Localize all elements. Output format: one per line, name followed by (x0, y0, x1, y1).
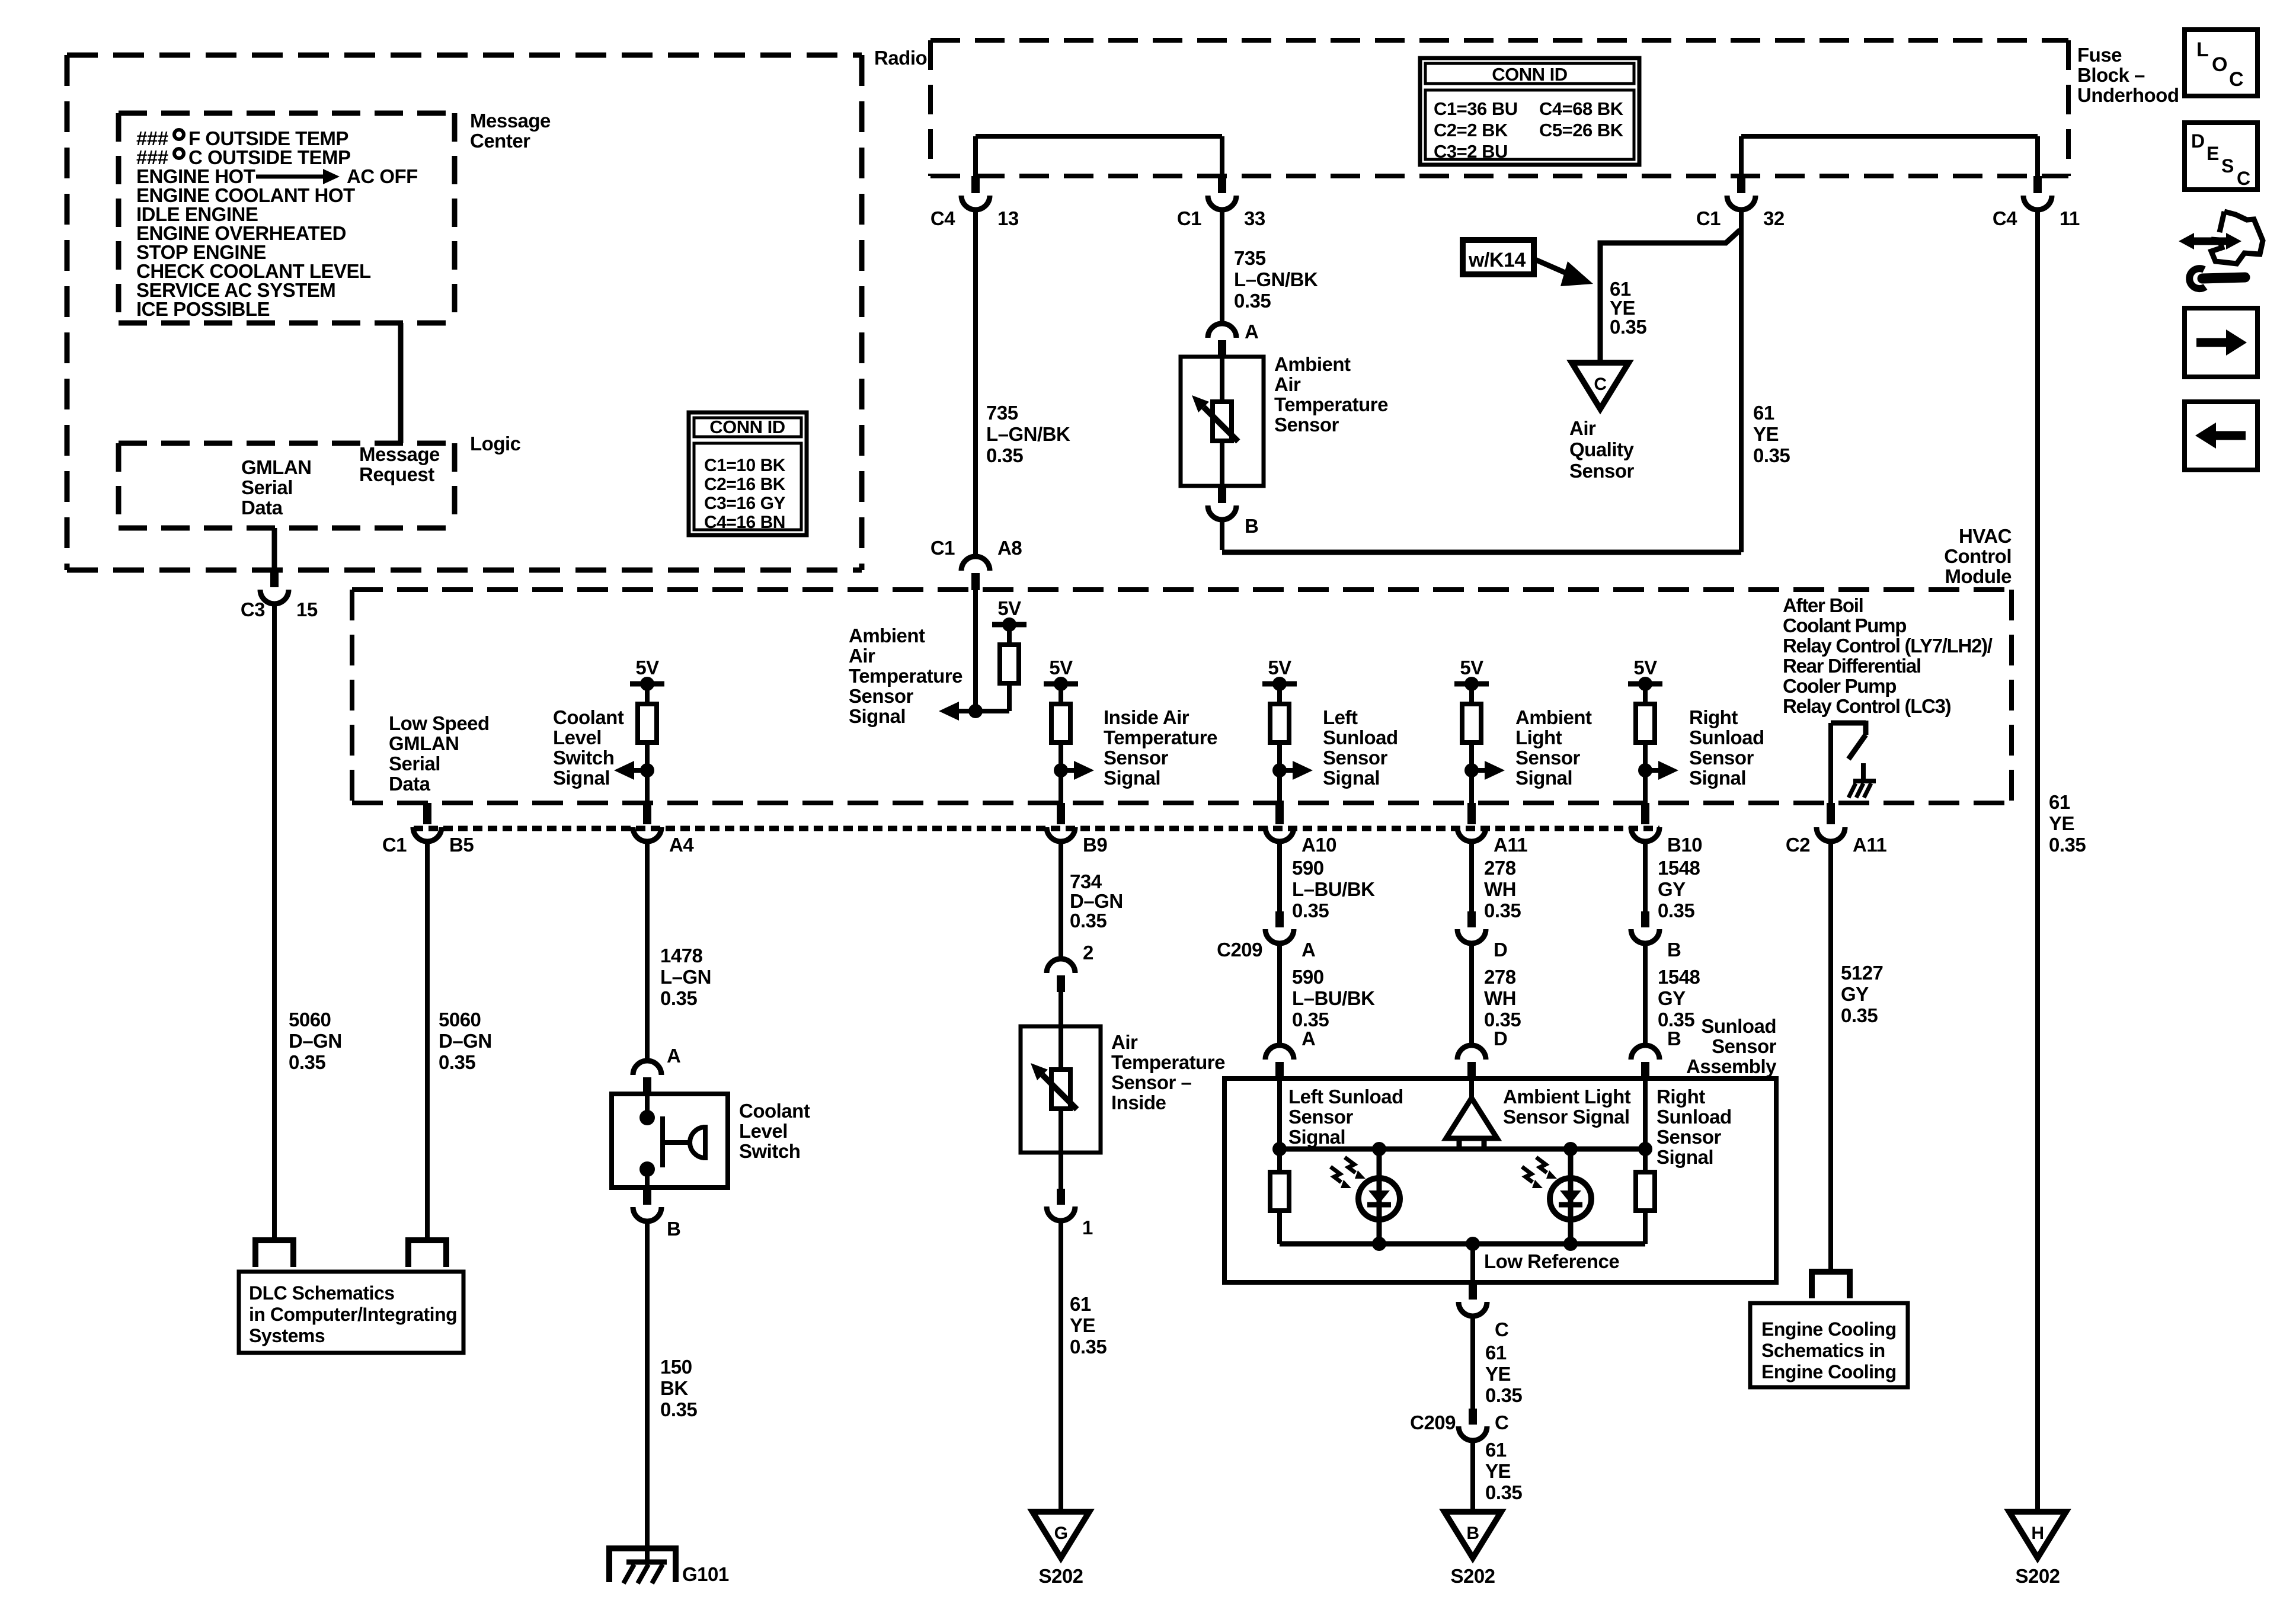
svg-text:Temperature: Temperature (1111, 1051, 1225, 1073)
svg-text:Level: Level (739, 1120, 788, 1142)
svg-text:L–GN/BK: L–GN/BK (1234, 268, 1318, 290)
inline connector C209 pin B (1641, 911, 1649, 927)
svg-text:C1: C1 (382, 834, 407, 856)
internal low reference rail (1280, 1241, 1645, 1247)
svg-text:A11: A11 (1494, 834, 1527, 856)
svg-text:278: 278 (1484, 857, 1516, 879)
splice triangle C - air quality sensor (1572, 363, 1629, 409)
svg-text:Control: Control (1944, 545, 2012, 567)
svg-text:Logic: Logic (470, 433, 521, 455)
svg-text:Right: Right (1689, 706, 1738, 728)
svg-text:GMLAN: GMLAN (241, 456, 311, 478)
connector C1 pin 32 (fuse block) (1737, 176, 1745, 193)
svg-text:5060: 5060 (439, 1009, 481, 1030)
svg-text:Signal: Signal (1657, 1146, 1713, 1168)
svg-text:C1: C1 (1177, 207, 1201, 229)
svg-text:GY: GY (1658, 987, 1686, 1009)
svg-text:C209: C209 (1410, 1412, 1456, 1433)
icon box forward arrow (2185, 308, 2257, 377)
svg-text:A: A (1302, 939, 1315, 961)
svg-text:YE: YE (2049, 812, 2074, 834)
wire 1478 L-GN (A4 to coolant level switch) (645, 844, 650, 1061)
svg-text:C3=2 BU: C3=2 BU (1434, 141, 1508, 162)
terminal bracket to engine cooling schematics (1812, 1272, 1850, 1298)
svg-text:Left: Left (1323, 706, 1358, 728)
wire sensor B to fuse block C1-32 (1220, 519, 1224, 550)
connector pin 2 (air temperature sensor - inside) (1047, 959, 1075, 973)
svg-text:Inside: Inside (1111, 1092, 1166, 1113)
wire 61 YE (pin C to C209 C) (1470, 1316, 1475, 1409)
amplifier (ambient light sensor) (1469, 1078, 1474, 1098)
svg-text:L–BU/BK: L–BU/BK (1292, 987, 1375, 1009)
wire 278 WH (C209 to sunload assembly pin D) (1469, 946, 1474, 1044)
svg-text:Low Speed: Low Speed (389, 712, 490, 734)
ground G101 (609, 1548, 676, 1582)
svg-text:Engine Cooling: Engine Cooling (1761, 1361, 1897, 1382)
svg-text:Request: Request (359, 463, 434, 485)
wire 278 WH (A11 to C209 D) (1469, 844, 1474, 911)
svg-text:G: G (1054, 1524, 1068, 1543)
svg-text:Sensor: Sensor (1274, 414, 1339, 436)
svg-text:Sunload: Sunload (1689, 727, 1764, 748)
svg-text:C209: C209 (1217, 939, 1262, 961)
splice triangle G - S202 (1032, 1512, 1089, 1558)
junction and arrow inside air temperature sensor signal (1054, 763, 1068, 777)
svg-text:YE: YE (1485, 1460, 1511, 1482)
svg-text:11: 11 (2060, 207, 2080, 229)
svg-text:Air: Air (1274, 373, 1301, 395)
w/K14 callout box (1463, 240, 1534, 274)
connector C3 pin 15 (radio) (270, 570, 279, 587)
wire branch to air quality sensor (1600, 230, 1740, 363)
svg-text:Coolant Pump: Coolant Pump (1783, 615, 1906, 636)
svg-text:61: 61 (1485, 1342, 1507, 1364)
svg-text:0.35: 0.35 (986, 444, 1023, 466)
svg-text:Sensor: Sensor (1712, 1035, 1777, 1057)
svg-text:0.35: 0.35 (1753, 444, 1790, 466)
connector pin B10 (HVAC) (1641, 803, 1649, 824)
connector C4 pin 13 (fuse block) (971, 176, 980, 193)
svg-text:61: 61 (1070, 1293, 1091, 1315)
svg-text:D: D (1494, 1028, 1507, 1049)
arrow ambient air temperature sensor signal (959, 709, 976, 713)
svg-text:Message: Message (359, 443, 440, 465)
svg-text:Serial: Serial (241, 476, 293, 498)
wire 61 YE C4-11 to splice S202 (2035, 209, 2040, 1512)
thermistor (ambient air temperature sensor) (1220, 386, 1224, 457)
svg-text:HVAC: HVAC (1959, 525, 2012, 547)
svg-text:Cooler Pump: Cooler Pump (1783, 675, 1896, 697)
svg-text:Switch: Switch (739, 1140, 800, 1162)
svg-text:Signal: Signal (1104, 767, 1160, 789)
svg-text:Level: Level (553, 727, 602, 748)
svg-text:S: S (2221, 155, 2234, 177)
svg-text:Data: Data (389, 773, 431, 795)
svg-text:GY: GY (1658, 878, 1686, 900)
svg-text:Temperature: Temperature (849, 665, 962, 687)
wire 590 L-BU/BK (C209 to sunload assembly pin A) (1277, 946, 1282, 1044)
radio module dashed box (67, 53, 862, 58)
junction and arrow left sunload sensor signal (1272, 763, 1287, 777)
svg-text:C3: C3 (241, 599, 265, 620)
svg-text:0.35: 0.35 (1484, 900, 1521, 921)
svg-text:0.35: 0.35 (1841, 1004, 1878, 1026)
svg-text:YE: YE (1070, 1314, 1095, 1336)
svg-text:5V: 5V (1049, 657, 1073, 679)
svg-text:Underhood: Underhood (2077, 84, 2179, 106)
svg-text:C: C (1495, 1318, 1508, 1340)
wire C1-A8 into module, junction ambient air temp signal (973, 590, 978, 711)
svg-text:Engine Cooling: Engine Cooling (1761, 1318, 1897, 1340)
svg-text:CONN ID: CONN ID (709, 417, 785, 437)
wire 1548 GY (B10 to C209 B) (1643, 844, 1648, 911)
svg-text:S202: S202 (1450, 1565, 1495, 1587)
svg-text:Sensor: Sensor (1323, 747, 1388, 769)
connector pin D (sunload sensor assembly) (1457, 1045, 1486, 1060)
sunload sensor assembly box (1224, 1078, 1776, 1282)
svg-text:Sunload: Sunload (1657, 1106, 1732, 1128)
relay driver switch (after boil coolant pump relay control) (1831, 721, 1866, 726)
svg-text:0.35: 0.35 (1610, 316, 1646, 338)
svg-text:Temperature: Temperature (1104, 727, 1217, 748)
wire 61 YE (sensor to splice S202 G) (1059, 1223, 1063, 1512)
svg-text:B9: B9 (1083, 834, 1107, 856)
svg-text:L–GN/BK: L–GN/BK (986, 423, 1070, 445)
svg-text:A: A (667, 1045, 680, 1067)
svg-text:Signal: Signal (1288, 1126, 1345, 1148)
svg-text:B: B (667, 1218, 680, 1240)
svg-text:0.35: 0.35 (660, 987, 697, 1009)
svg-text:GY: GY (1841, 983, 1869, 1005)
svg-text:5V: 5V (1633, 657, 1657, 679)
connector C2 pin A11 (HVAC) (1827, 803, 1835, 824)
wire 5060 D-GN (HVAC C1-B5 to DLC) (425, 844, 430, 1240)
svg-text:BK: BK (660, 1377, 688, 1399)
wire 734 D-GN (B9 to inside air temp sensor) (1059, 844, 1063, 959)
svg-text:Quality: Quality (1569, 439, 1635, 460)
svg-text:Air: Air (849, 645, 875, 667)
svg-text:C4: C4 (930, 207, 955, 229)
svg-text:Sunload: Sunload (1701, 1015, 1776, 1037)
svg-text:1548: 1548 (1658, 857, 1700, 879)
svg-text:H: H (2031, 1524, 2044, 1543)
coolant level switch contacts and float (645, 1094, 650, 1118)
low reference wire to pin C (1470, 1244, 1475, 1282)
icon box DESC (2185, 123, 2257, 190)
svg-text:278: 278 (1484, 966, 1516, 988)
svg-text:WH: WH (1484, 987, 1516, 1009)
message center dashed box (119, 111, 455, 116)
terminal bracket to DLC schematics (HVAC wire) (408, 1240, 446, 1267)
fuse block internal bus (61 circuit) C1-32 to C4-11 (1741, 134, 2038, 139)
svg-text:734: 734 (1070, 870, 1102, 892)
terminal bracket to DLC schematics (radio wire) (255, 1240, 293, 1267)
svg-text:C: C (2229, 68, 2243, 91)
svg-text:GMLAN: GMLAN (389, 732, 459, 754)
svg-text:A: A (1302, 1028, 1315, 1049)
splice triangle H - S202 (2009, 1512, 2066, 1558)
svg-text:C4=68 BK: C4=68 BK (1539, 98, 1624, 119)
connector pin A10 (HVAC) (1275, 803, 1284, 824)
CONN ID table (radio connectors) (689, 412, 807, 535)
svg-text:Temperature: Temperature (1274, 393, 1388, 415)
svg-text:w/K14: w/K14 (1468, 249, 1526, 271)
left sunload sensor resistor (1277, 1149, 1282, 1172)
internal wire pin B to signal rail (1643, 1078, 1648, 1149)
svg-text:Systems: Systems (249, 1325, 325, 1346)
svg-text:32: 32 (1763, 207, 1785, 229)
svg-text:D: D (2191, 130, 2205, 152)
connector pin B (coolant level switch) (643, 1188, 651, 1205)
svg-text:C: C (1495, 1412, 1508, 1433)
svg-text:0.35: 0.35 (1485, 1384, 1522, 1406)
svg-text:735: 735 (986, 402, 1018, 424)
svg-text:Coolant: Coolant (553, 706, 624, 728)
svg-text:Sensor: Sensor (1657, 1126, 1722, 1148)
internal top signal rail (1280, 1147, 1645, 1152)
HVAC connector face dotted line (414, 826, 1659, 831)
svg-text:A10: A10 (1302, 834, 1336, 856)
coolant level switch box (612, 1094, 728, 1188)
svg-text:Ambient: Ambient (1274, 353, 1351, 375)
svg-text:L–BU/BK: L–BU/BK (1292, 878, 1375, 900)
svg-text:61: 61 (2049, 791, 2070, 813)
svg-text:Sensor: Sensor (1515, 747, 1581, 769)
svg-text:B: B (1667, 939, 1681, 961)
wire 5127 GY (C2-A11 to engine cooling) (1828, 844, 1833, 1272)
svg-text:Signal: Signal (553, 767, 610, 789)
junction and arrow coolant level switch signal (640, 763, 654, 777)
svg-text:61: 61 (1753, 402, 1774, 424)
arrow ENGINE HOT to AC OFF (256, 175, 323, 179)
wire 735 L-GN/BK C1-33 to sensor pin A (1220, 209, 1224, 324)
svg-text:Assembly: Assembly (1686, 1055, 1777, 1077)
left photodiode (sunload sensor) (1372, 1142, 1386, 1156)
connector pin A (ambient air temperature sensor) (1208, 324, 1236, 338)
svg-text:5V: 5V (1268, 657, 1291, 679)
svg-text:A8: A8 (997, 537, 1022, 559)
wire 5060 D-GN (radio C3-15 to DLC) (272, 603, 277, 1240)
svg-text:A4: A4 (669, 834, 694, 856)
svg-text:C1: C1 (1696, 207, 1721, 229)
right sunload sensor resistor (1643, 1149, 1648, 1172)
logic dashed box (119, 441, 455, 446)
svg-text:CONN ID: CONN ID (1492, 64, 1568, 85)
inline connector C209 pin D (1467, 911, 1476, 927)
connector C4 pin 11 (fuse block) (2033, 176, 2042, 193)
svg-text:Sensor –: Sensor – (1111, 1071, 1192, 1093)
svg-text:Relay Control (LY7/LH2)/: Relay Control (LY7/LH2)/ (1783, 635, 1993, 657)
svg-text:S202: S202 (1038, 1565, 1083, 1587)
connector C1 pin 33 (fuse block) (1218, 176, 1226, 193)
svg-text:Ambient: Ambient (1515, 706, 1592, 728)
svg-text:in Computer/Integrating: in Computer/Integrating (249, 1304, 457, 1325)
DLC schematics reference box (239, 1272, 463, 1353)
svg-text:C4=16 BN: C4=16 BN (704, 513, 785, 532)
svg-text:L–GN: L–GN (660, 966, 711, 988)
wire message request (message center to logic) (398, 323, 404, 443)
svg-text:0.35: 0.35 (2049, 834, 2086, 856)
svg-text:WH: WH (1484, 878, 1516, 900)
svg-text:0.35: 0.35 (1658, 900, 1694, 921)
connector C1 pin A8 (HVAC control module) (961, 556, 990, 571)
svg-text:After Boil: After Boil (1783, 594, 1863, 616)
inline connector C209 pin A (1275, 911, 1284, 927)
svg-text:Sunload: Sunload (1323, 727, 1398, 748)
svg-text:Right: Right (1657, 1086, 1705, 1108)
icon box back arrow (2185, 402, 2257, 470)
inline connector C209 pin C (1469, 1409, 1477, 1425)
connector pin A (coolant level switch) (633, 1061, 661, 1075)
svg-text:Rear Differential: Rear Differential (1783, 655, 1921, 677)
svg-text:Sensor: Sensor (1689, 747, 1754, 769)
svg-text:Message: Message (470, 110, 551, 132)
svg-text:15: 15 (296, 599, 318, 620)
svg-text:C: C (2237, 168, 2250, 189)
svg-text:5127: 5127 (1841, 962, 1883, 984)
engine cooling schematics reference box (1750, 1303, 1908, 1387)
thermistor (air temperature sensor - inside) (1059, 1054, 1063, 1125)
svg-text:Signal: Signal (1515, 767, 1572, 789)
svg-text:E: E (2207, 143, 2219, 164)
svg-text:Radio: Radio (874, 47, 927, 69)
svg-text:5060: 5060 (289, 1009, 331, 1030)
svg-text:33: 33 (1244, 207, 1265, 229)
svg-text:C2=16 BK: C2=16 BK (704, 475, 786, 494)
icon box LOC (2185, 30, 2257, 96)
svg-text:150: 150 (660, 1356, 692, 1378)
svg-text:5V: 5V (635, 657, 659, 679)
svg-text:Low Reference: Low Reference (1484, 1250, 1619, 1272)
svg-text:C4: C4 (1993, 207, 2017, 229)
svg-text:Sensor: Sensor (1288, 1106, 1354, 1128)
wire 1548 GY (C209 to sunload assembly pin B) (1643, 946, 1648, 1044)
svg-text:C1=36 BU: C1=36 BU (1434, 98, 1518, 119)
wire 61 YE (C209 C to splice S202 B) (1470, 1443, 1475, 1512)
svg-text:1548: 1548 (1658, 966, 1700, 988)
svg-text:D–GN: D–GN (289, 1030, 342, 1052)
svg-text:Ambient Light: Ambient Light (1503, 1086, 1631, 1108)
svg-text:Signal: Signal (849, 705, 906, 727)
svg-text:61: 61 (1485, 1439, 1507, 1461)
svg-text:590: 590 (1292, 966, 1324, 988)
svg-text:C1=10 BK: C1=10 BK (704, 456, 786, 475)
svg-text:Switch: Switch (553, 747, 614, 769)
svg-text:0.35: 0.35 (1070, 910, 1107, 932)
svg-text:O: O (2212, 53, 2227, 76)
svg-text:0.35: 0.35 (1070, 1336, 1107, 1358)
connector pin B (ambient air temperature sensor) (1218, 486, 1226, 503)
svg-text:G101: G101 (682, 1563, 729, 1585)
svg-text:C2: C2 (1786, 834, 1810, 856)
connector C1 pin B5 (HVAC) (423, 803, 431, 824)
internal wire pin A to signal rail (1277, 1078, 1282, 1149)
svg-text:A: A (1245, 321, 1258, 343)
svg-text:Sensor: Sensor (1569, 460, 1635, 482)
svg-text:S202: S202 (2015, 1565, 2060, 1587)
svg-text:Data: Data (241, 497, 283, 519)
svg-text:0.35: 0.35 (1292, 900, 1329, 921)
svg-text:1: 1 (1082, 1217, 1093, 1238)
svg-text:0.35: 0.35 (1485, 1481, 1522, 1503)
svg-text:YE: YE (1485, 1363, 1511, 1385)
svg-text:ICE POSSIBLE: ICE POSSIBLE (136, 298, 270, 320)
svg-text:YE: YE (1753, 423, 1779, 445)
svg-text:B: B (1245, 515, 1258, 537)
wire GMLAN serial data from logic box (272, 528, 277, 570)
connector pin A4 (HVAC) (643, 803, 651, 824)
junction and arrow ambient light sensor signal (1464, 763, 1479, 777)
svg-text:Light: Light (1515, 727, 1562, 748)
svg-text:L: L (2196, 39, 2208, 61)
icon vehicle with wrench (component view) (2220, 212, 2224, 232)
fuse block underhood dashed box (930, 38, 2068, 43)
wire relay control to C2-A11 (1828, 723, 1833, 803)
svg-text:0.35: 0.35 (439, 1051, 475, 1073)
svg-text:5V: 5V (997, 597, 1021, 619)
svg-text:B: B (1466, 1524, 1479, 1543)
svg-text:735: 735 (1234, 247, 1266, 269)
svg-text:Signal: Signal (1323, 767, 1380, 789)
svg-text:0.35: 0.35 (1234, 290, 1271, 312)
svg-text:B: B (1667, 1028, 1681, 1049)
HVAC control module dashed box (352, 587, 2012, 592)
svg-text:0.35: 0.35 (289, 1051, 325, 1073)
svg-text:AC OFF: AC OFF (347, 165, 418, 187)
CONN ID table (fuse block connectors) (1420, 58, 1639, 165)
wire 150 BK (coolant level switch to G101) (645, 1221, 650, 1548)
wire 590 L-BU/BK (A10 to C209 A) (1277, 844, 1282, 911)
svg-text:Signal: Signal (1689, 767, 1746, 789)
svg-text:Fuse: Fuse (2077, 44, 2122, 66)
svg-text:A11: A11 (1853, 834, 1886, 856)
connector pin A11 (HVAC) (1467, 803, 1476, 824)
svg-text:DLC Schematics: DLC Schematics (249, 1282, 395, 1304)
svg-text:Block –: Block – (2077, 64, 2145, 86)
svg-text:Sensor: Sensor (849, 685, 914, 707)
connector pin B9 (HVAC) (1057, 803, 1065, 824)
svg-text:0.35: 0.35 (660, 1398, 697, 1420)
connector pin B (sunload sensor assembly) (1631, 1045, 1659, 1060)
svg-text:Schematics in: Schematics in (1761, 1340, 1885, 1361)
svg-text:13: 13 (997, 207, 1019, 229)
chassis ground (internal) (1853, 779, 1876, 783)
svg-text:Left Sunload: Left Sunload (1288, 1086, 1403, 1108)
connector pin C (sunload sensor assembly) (1469, 1282, 1477, 1300)
svg-text:Coolant: Coolant (739, 1100, 810, 1122)
svg-text:D–GN: D–GN (439, 1030, 492, 1052)
splice triangle B - S202 (1444, 1512, 1501, 1558)
svg-text:C3=16 GY: C3=16 GY (704, 494, 785, 513)
svg-text:D: D (1494, 939, 1507, 961)
svg-text:D–GN: D–GN (1070, 890, 1123, 912)
arrow w/K14 to wire (1534, 259, 1572, 276)
svg-text:B10: B10 (1667, 834, 1702, 856)
svg-text:C2=2 BK: C2=2 BK (1434, 120, 1508, 140)
air temperature sensor - inside box (1021, 1026, 1101, 1153)
svg-text:Air: Air (1111, 1031, 1138, 1053)
svg-text:Sensor: Sensor (1104, 747, 1169, 769)
svg-text:Relay Control (LC3): Relay Control (LC3) (1783, 695, 1951, 717)
svg-text:Center: Center (470, 130, 530, 152)
svg-text:590: 590 (1292, 857, 1324, 879)
svg-text:C5=26 BK: C5=26 BK (1539, 120, 1624, 140)
connector pin A (sunload sensor assembly) (1265, 1045, 1294, 1060)
svg-text:C1: C1 (930, 537, 955, 559)
svg-text:Module: Module (1945, 565, 2012, 587)
svg-text:Air: Air (1569, 417, 1596, 439)
ambient air temperature sensor box (1181, 357, 1264, 486)
